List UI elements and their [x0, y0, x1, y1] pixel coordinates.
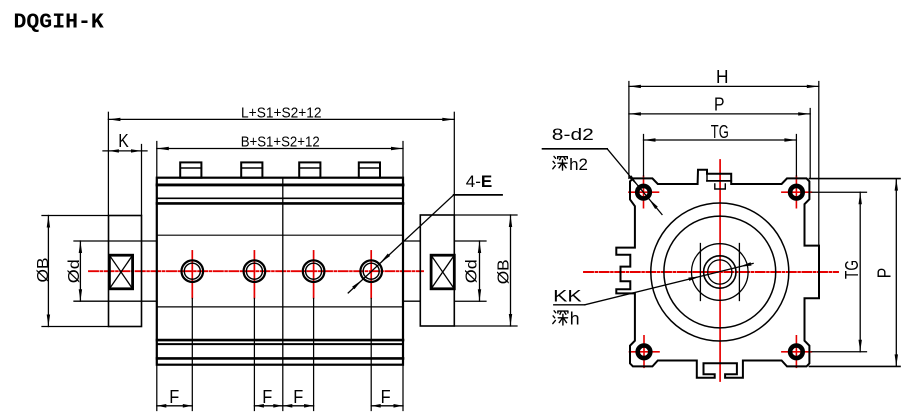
top notch small box below edge: [715, 184, 726, 189]
svg-text:F: F: [381, 387, 391, 407]
svg-text:Ød: Ød: [66, 259, 83, 283]
svg-text:Ød: Ød: [464, 259, 481, 283]
dimension diad left: [79, 241, 81, 301]
svg-text:KK: KK: [553, 288, 582, 306]
svg-text:TG: TG: [842, 260, 862, 279]
text shen-h (depth h): [553, 311, 568, 325]
red crosses at corner holes: [629, 191, 659, 193]
svg-text:L+S1+S2+12: L+S1+S2+12: [241, 104, 322, 121]
text shen-h2 (depth h2): [553, 156, 568, 170]
dimension H: [628, 82, 630, 179]
dimension TG top: [643, 135, 645, 177]
right rod (diam d): [403, 240, 420, 242]
svg-text:8-d2: 8-d2: [552, 126, 594, 144]
svg-text:F: F: [262, 387, 272, 407]
top notch inner lip: [707, 180, 731, 182]
port boss tabs on top: [180, 162, 201, 177]
svg-text:ØB: ØB: [496, 259, 513, 284]
concentric circles (bore / boss): [651, 203, 789, 341]
key flats on boss: [699, 244, 701, 301]
dimension diaB left: [42, 215, 109, 217]
svg-text:ØB: ØB: [35, 258, 52, 283]
svg-text:TG: TG: [711, 122, 729, 142]
end-view body outline with corner pads, side tabs and T-slots: [616, 170, 819, 378]
svg-text:F: F: [169, 387, 179, 407]
svg-text:h: h: [570, 309, 580, 329]
svg-text:F: F: [293, 387, 303, 407]
right rod end crossed box: [431, 255, 454, 289]
body mid parting line: [282, 178, 284, 365]
dimension B+S1+S2+12: [156, 142, 158, 178]
svg-text:K: K: [118, 131, 129, 151]
left rod (diam d) and extension lines: [74, 240, 157, 242]
svg-text:P: P: [714, 94, 725, 115]
svg-text:h2: h2: [569, 155, 588, 174]
cylinder body (side view): [157, 178, 403, 365]
dimension TG right: [812, 191, 867, 193]
svg-text:B+S1+S2+12: B+S1+S2+12: [241, 133, 320, 150]
dimension P top: [809, 109, 811, 179]
corner mounting holes 8-d2: [637, 186, 650, 199]
dimension P right: [809, 178, 900, 180]
dimension diad right: [454, 240, 486, 242]
F dimension extension lines: [156, 365, 158, 411]
svg-text:DQGIH-K: DQGIH-K: [14, 11, 104, 35]
right rod collar: [420, 215, 454, 326]
svg-text:P: P: [874, 268, 895, 279]
red centre cross (end view): [584, 271, 838, 273]
body band lines: [157, 183, 403, 186]
dimension L+S1+S2+12: [107, 112, 109, 215]
dimension K: [141, 145, 143, 216]
left rod collar: [109, 216, 142, 327]
port circles: [182, 260, 204, 282]
dimension F (x4): [157, 405, 193, 407]
red port centre marks: [191, 251, 193, 298]
dimension diaB right: [454, 214, 517, 216]
svg-text:H: H: [716, 66, 729, 87]
red centre line (side view): [89, 270, 423, 272]
svg-text:4-E: 4-E: [466, 172, 492, 191]
left rod end crossed box: [109, 255, 132, 289]
